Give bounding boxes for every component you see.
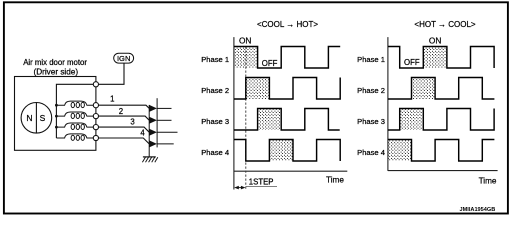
wire 4 xyxy=(99,138,150,144)
wire IGN to pin xyxy=(99,63,125,84)
left waveform phase 4 xyxy=(234,140,340,162)
svg-text:Phase 4: Phase 4 xyxy=(357,148,385,157)
wire common bus xyxy=(56,84,93,138)
junction dot 3 xyxy=(55,126,58,129)
left chart time axis xyxy=(234,170,347,172)
svg-text:1STEP: 1STEP xyxy=(249,178,274,187)
connector line B xyxy=(156,98,158,147)
svg-text:Phase 4: Phase 4 xyxy=(201,148,229,157)
right waveform phase 4 xyxy=(388,140,495,162)
left P2 step fill xyxy=(246,78,270,100)
right chart time axis xyxy=(388,170,498,172)
svg-text:OFF: OFF xyxy=(404,58,420,67)
coil L4 xyxy=(56,134,93,141)
left waveform phase 3 xyxy=(234,109,340,131)
svg-text:Time: Time xyxy=(479,176,497,185)
connector pin 2 xyxy=(93,114,98,119)
junction dot 1 xyxy=(55,104,58,107)
connector arrow 3 xyxy=(149,129,157,136)
connector pin 1 xyxy=(93,103,98,108)
svg-text:(Driver side): (Driver side) xyxy=(34,68,79,77)
junction dot 2 xyxy=(55,115,58,118)
coil L3 xyxy=(56,123,93,130)
svg-text:Phase 2: Phase 2 xyxy=(357,86,385,95)
right P4 initial ON fill xyxy=(388,140,412,162)
coil L2 xyxy=(56,112,93,119)
wire 1 xyxy=(99,105,150,108)
ground xyxy=(142,157,157,162)
connector pin 3 xyxy=(93,125,98,130)
svg-text:2: 2 xyxy=(119,107,123,116)
connector arrow 1 xyxy=(149,105,157,112)
svg-text:3: 3 xyxy=(130,118,134,127)
left P3 step fill xyxy=(258,109,282,131)
stub 1 xyxy=(157,107,171,109)
connector pin 4 xyxy=(93,135,98,140)
right waveform phase 3 xyxy=(388,109,494,131)
svg-text:1: 1 xyxy=(110,95,114,104)
left P1 initial ON fill xyxy=(234,47,258,69)
stub 3 xyxy=(157,131,177,133)
right waveform phase 1 xyxy=(388,47,494,69)
svg-text:JMIIA1954GB: JMIIA1954GB xyxy=(460,207,496,213)
svg-text:Phase 1: Phase 1 xyxy=(357,55,385,64)
left waveform phase 2 xyxy=(234,78,340,100)
svg-text:Time: Time xyxy=(326,176,344,185)
coil L1 xyxy=(56,101,93,108)
svg-text:Phase 2: Phase 2 xyxy=(201,86,229,95)
svg-text:Air mix door motor: Air mix door motor xyxy=(23,58,87,67)
1STEP leader line xyxy=(246,185,277,187)
svg-text:<COOL → HOT>: <COOL → HOT> xyxy=(257,20,318,29)
wire 3 xyxy=(99,127,150,132)
air mix door motor box xyxy=(15,77,96,151)
dashed 1step line xyxy=(245,47,247,191)
svg-text:IGN: IGN xyxy=(117,54,131,63)
connector pin IGN xyxy=(93,82,98,87)
stub 2 xyxy=(157,119,171,121)
svg-text:N: N xyxy=(26,113,32,123)
svg-text:ON: ON xyxy=(429,36,441,46)
connector arrow 4 xyxy=(149,140,157,147)
svg-text:OFF: OFF xyxy=(262,59,278,68)
wire 2 xyxy=(99,116,150,120)
svg-text:Phase 3: Phase 3 xyxy=(201,117,229,126)
left chart vertical axis xyxy=(233,37,235,189)
connector bus line A (grounded) xyxy=(148,105,150,157)
stub 4 xyxy=(157,143,174,145)
right waveform phase 2 xyxy=(388,78,495,100)
motor M (magnet rotor) xyxy=(21,103,52,134)
svg-text:4: 4 xyxy=(140,129,145,138)
right chart vertical axis xyxy=(387,37,389,171)
svg-text:ON: ON xyxy=(239,36,251,46)
svg-text:Phase 1: Phase 1 xyxy=(201,55,229,64)
left waveform phase 1 xyxy=(234,47,340,69)
connector arrow 2 xyxy=(149,117,157,124)
svg-text:Phase 3: Phase 3 xyxy=(357,117,385,126)
left P4 step fill xyxy=(269,140,293,162)
right P1 step fill xyxy=(423,47,447,69)
svg-text:S: S xyxy=(40,113,46,123)
1STEP measure arrows xyxy=(234,186,245,190)
IGN supply xyxy=(114,53,134,63)
right P3 step fill xyxy=(400,109,424,131)
svg-text:<HOT → COOL>: <HOT → COOL> xyxy=(414,20,476,29)
right P2 step fill xyxy=(412,78,436,100)
